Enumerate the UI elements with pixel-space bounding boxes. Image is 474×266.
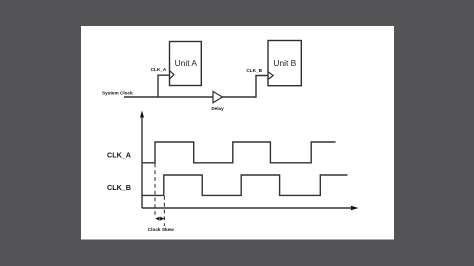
svg-text:Unit A: Unit A: [175, 58, 198, 68]
unit B box U2: [268, 41, 301, 86]
clock pin chevron of unit B: [268, 72, 273, 80]
wire: system clock trunk: [124, 96, 213, 98]
horizontal axis (time): [142, 207, 352, 209]
svg-text:System Clock: System Clock: [102, 91, 133, 96]
vertical axis (voltage): [141, 117, 143, 209]
clock pin chevron of unit A: [170, 71, 175, 79]
skew dimension arrow left: [155, 217, 159, 221]
white slide area: [81, 26, 394, 240]
svg-text:CLK_A: CLK_A: [151, 67, 167, 72]
waveform CLK_B: [142, 175, 348, 195]
waveform CLK_A: [142, 142, 336, 163]
svg-text:Clock Skew: Clock Skew: [148, 227, 174, 232]
unit A box U1: [170, 42, 202, 86]
dashed marker at CLK_A rising edge: [154, 164, 156, 218]
svg-text:Unit B: Unit B: [273, 58, 296, 68]
wire: delay output to unit B clock: [222, 76, 268, 98]
dashed marker at CLK_B rising edge: [163, 196, 165, 226]
svg-text:CLK_A: CLK_A: [107, 150, 131, 159]
svg-text:Delay: Delay: [211, 106, 224, 111]
wire: branch up to unit A clock: [158, 75, 170, 97]
skew dimension arrow right: [160, 217, 164, 221]
svg-text:CLK_B: CLK_B: [246, 68, 262, 73]
delay buffer triangle: [213, 91, 222, 102]
svg-text:CLK_B: CLK_B: [107, 183, 131, 192]
